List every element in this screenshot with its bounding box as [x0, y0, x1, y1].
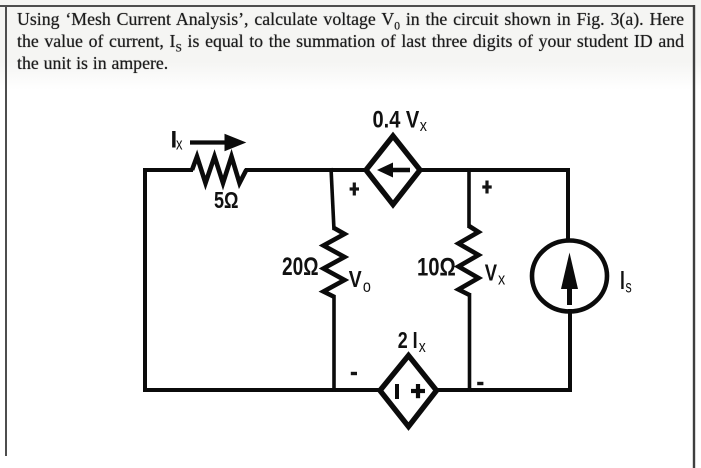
polarity plus for Vo: [350, 183, 359, 196]
dependent source 0.4Vx diamond: [366, 136, 420, 205]
svg-text:x: x: [419, 337, 426, 356]
label 2Ix value: [398, 327, 427, 356]
resistor R1 5ohm: [192, 157, 247, 184]
cell left border: [5, 5, 7, 456]
svg-text:s: s: [626, 277, 632, 297]
wire bottom-right segment: [435, 388, 572, 392]
wire right rail lower: [568, 309, 572, 392]
label Vx voltage: [485, 260, 506, 289]
polarity plus inside 2Ix source: [411, 384, 425, 398]
polarity plus for Vx: [482, 181, 491, 194]
svg-text:10Ω: 10Ω: [417, 254, 456, 282]
cell top border: [0, 5, 694, 7]
polarity minus for Vx: [477, 382, 483, 385]
label Is value: [619, 267, 632, 297]
wire top-right segment: [419, 168, 570, 172]
wire 20ohm branch lower lead: [332, 295, 336, 392]
arrow Ix direction: [190, 134, 246, 151]
wire right rail upper: [566, 168, 570, 243]
polarity minus bar inside 2Ix source: [395, 384, 399, 399]
svg-text:o: o: [363, 276, 371, 296]
svg-text:x: x: [498, 270, 506, 289]
resistor R2 20ohm: [324, 228, 345, 297]
svg-text:V: V: [485, 260, 498, 286]
polarity minus for Vo: [351, 372, 357, 375]
label 0.4Vx value: [373, 107, 428, 136]
label Ix current: [171, 127, 183, 154]
wire 10ohm branch lower lead: [468, 293, 472, 392]
svg-text:x: x: [420, 116, 428, 135]
dependent source 2Ix diamond: [380, 356, 437, 427]
wire top-middle segment: [245, 168, 367, 172]
arrow inside 0.4Vx source (pointing left): [377, 163, 410, 178]
svg-text:2 I: 2 I: [398, 327, 418, 353]
arrow inside Is source (pointing up): [561, 253, 578, 306]
current source Is circle: [532, 241, 607, 312]
wire left rail: [143, 168, 147, 392]
wire 20ohm branch upper lead: [331, 168, 334, 230]
wire top-left segment: [143, 168, 193, 172]
svg-text:V: V: [349, 266, 362, 292]
cell right border: [693, 5, 695, 468]
label Vo voltage: [349, 266, 371, 296]
svg-text:5Ω: 5Ω: [214, 187, 239, 213]
wire bottom-left segment: [143, 388, 380, 392]
wire 10ohm branch upper lead: [467, 168, 471, 228]
svg-text:0.4 V: 0.4 V: [373, 107, 420, 134]
svg-text:x: x: [176, 135, 183, 154]
svg-text:20Ω: 20Ω: [282, 253, 319, 281]
resistor R3 10ohm: [459, 226, 479, 295]
